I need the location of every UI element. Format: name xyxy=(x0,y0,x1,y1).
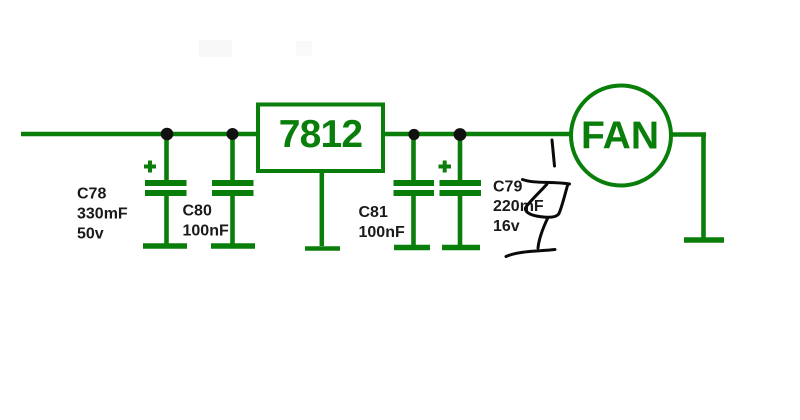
svg-text:330mF: 330mF xyxy=(77,206,128,223)
svg-text:FAN: FAN xyxy=(581,115,659,158)
svg-text:100nF: 100nF xyxy=(359,224,405,241)
svg-text:C79: C79 xyxy=(493,179,522,196)
svg-text:7812: 7812 xyxy=(279,113,363,156)
svg-text:220mF: 220mF xyxy=(493,198,544,215)
svg-text:100nF: 100nF xyxy=(183,223,229,240)
svg-text:50v: 50v xyxy=(77,226,104,243)
svg-text:16v: 16v xyxy=(493,218,520,235)
svg-text:C78: C78 xyxy=(77,186,106,203)
svg-text:C81: C81 xyxy=(359,204,388,221)
svg-text:C80: C80 xyxy=(183,203,212,220)
